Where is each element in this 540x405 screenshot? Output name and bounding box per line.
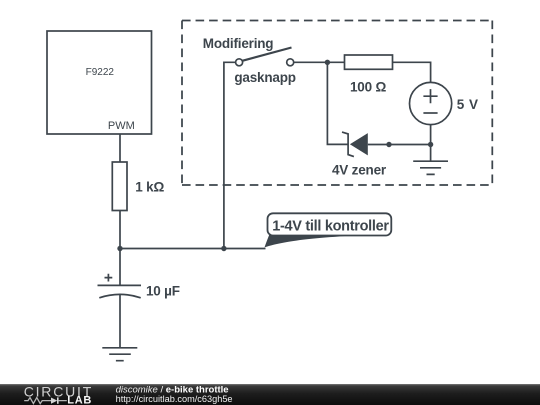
zener D1 cathode bar	[342, 132, 354, 157]
wire PWM pin to R1	[119, 134, 121, 162]
logo diode bar	[57, 397, 59, 403]
svg-text:F9222: F9222	[86, 67, 115, 78]
capacitor C1 curved bottom plate	[99, 294, 140, 297]
switch SW1 right contact	[287, 59, 294, 66]
wire zener D1 to node D	[368, 144, 431, 146]
node A junction dot	[117, 246, 122, 251]
dashed enclosure box top edge	[182, 20, 492, 22]
resistor R1 1 kOhm body	[112, 162, 127, 211]
logo resistor zigzag	[24, 398, 67, 404]
ground G2	[413, 145, 448, 175]
IC U1 F9222 box	[47, 31, 152, 134]
node C junction dot	[325, 60, 330, 65]
wire V1 bottom to node D	[430, 125, 432, 145]
wire node A to capacitor C1	[119, 249, 121, 286]
footer bar	[0, 384, 540, 405]
wire node A horizontal to callout tail	[120, 248, 266, 250]
node D junction dot	[428, 142, 433, 147]
svg-text:100 Ω: 100 Ω	[350, 80, 386, 95]
zener D1 triangle	[350, 133, 368, 155]
dashed enclosure box bottom edge	[182, 184, 492, 186]
wire R1 to node A	[119, 211, 121, 249]
voltage source V1 plus sign	[423, 89, 437, 103]
svg-text:LAB: LAB	[67, 394, 92, 405]
capacitor C1 top plate	[98, 284, 142, 286]
svg-text:Modifiering: Modifiering	[203, 36, 274, 51]
capacitor C1 plus sign	[105, 274, 113, 282]
voltage source V1 circle	[410, 82, 452, 124]
svg-text:gasknapp: gasknapp	[234, 70, 295, 85]
resistor R2 100 Ohm body	[345, 55, 393, 69]
switch SW1 lever	[242, 48, 292, 61]
svg-text:http://circuitlab.com/c63gh5e: http://circuitlab.com/c63gh5e	[116, 394, 233, 404]
callout tail	[265, 235, 346, 248]
dashed enclosure box left edge	[181, 21, 183, 186]
wire node C down to zener D1	[327, 62, 348, 144]
svg-text:10 µF: 10 µF	[146, 283, 180, 298]
switch SW1 left contact	[236, 59, 243, 66]
node E junction dot	[386, 142, 391, 147]
callout box 1-4V till kontroller	[268, 213, 392, 235]
ground G1	[102, 348, 137, 361]
node B junction dot	[221, 246, 226, 251]
svg-text:5 V: 5 V	[457, 97, 479, 112]
svg-text:PWM: PWM	[108, 120, 135, 132]
wire C1 to ground G1	[119, 295, 121, 348]
svg-text:1-4V till kontroller: 1-4V till kontroller	[272, 219, 389, 235]
voltage source V1 minus sign	[423, 112, 437, 114]
svg-text:1 kΩ: 1 kΩ	[135, 180, 164, 195]
wire switch left terminal down to node B	[224, 62, 236, 248]
logo diode triangle	[51, 398, 57, 404]
wire R2 to V1 top	[393, 62, 431, 82]
svg-text:4V zener: 4V zener	[332, 162, 387, 177]
wire switch right terminal to node C	[293, 61, 344, 63]
dashed enclosure box right edge	[491, 21, 493, 186]
